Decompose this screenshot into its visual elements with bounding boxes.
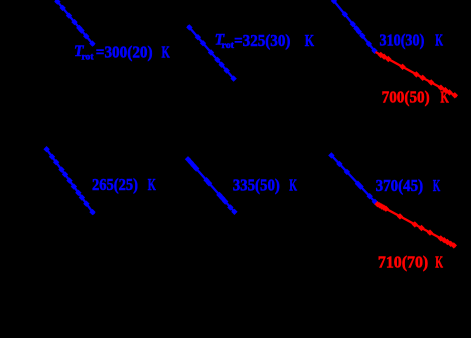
svg-text:K: K	[435, 31, 443, 50]
svg-text:=325(30): =325(30)	[234, 31, 290, 50]
svg-text:K: K	[305, 31, 315, 50]
svg-text:370(45): 370(45)	[376, 176, 424, 195]
label 370(45) K	[376, 176, 441, 195]
label 335(50) K	[233, 176, 298, 195]
svg-text:rot: rot	[82, 52, 94, 62]
label T_rot=325(30) K	[215, 31, 315, 50]
svg-text:K: K	[289, 176, 297, 195]
fit line 335 K	[185, 157, 237, 215]
svg-text:rot: rot	[222, 40, 235, 50]
svg-text:265(25): 265(25)	[92, 175, 138, 194]
fit line 310 K	[331, 0, 377, 54]
svg-text:710(70): 710(70)	[378, 253, 428, 272]
svg-text:K: K	[148, 175, 157, 194]
label 710(70) K	[378, 253, 444, 272]
label 700(50) K	[382, 87, 450, 106]
svg-text:K: K	[435, 253, 443, 272]
label T_rot=300(20) K	[74, 43, 170, 62]
fit line 700 K	[376, 52, 458, 98]
label 265(25) K	[92, 175, 156, 194]
svg-text:K: K	[433, 176, 441, 195]
svg-text:310(30): 310(30)	[380, 31, 425, 50]
fit line 710 K	[375, 202, 457, 249]
svg-text:335(50): 335(50)	[233, 176, 280, 195]
svg-text:=300(20): =300(20)	[96, 43, 153, 62]
fit line 265 K	[44, 147, 95, 215]
fit line 325 K	[187, 25, 237, 82]
label 310(30) K	[380, 31, 444, 50]
fit line 300 K	[55, 0, 95, 46]
svg-text:700(50): 700(50)	[382, 87, 430, 106]
svg-text:K: K	[162, 43, 171, 62]
fit line 370 K	[329, 153, 378, 205]
svg-text:K: K	[440, 87, 449, 106]
